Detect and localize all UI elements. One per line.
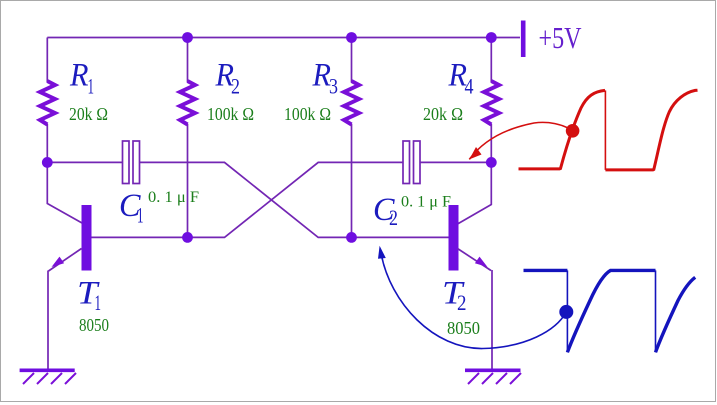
svg-text:100k Ω: 100k Ω xyxy=(284,104,331,124)
wire R2 branch xyxy=(187,38,189,83)
node top rail R4 xyxy=(486,32,497,43)
svg-text:2: 2 xyxy=(389,205,398,230)
svg-text:8050: 8050 xyxy=(79,315,109,335)
svg-text:R: R xyxy=(69,58,88,94)
svg-text:20k Ω: 20k Ω xyxy=(423,104,463,124)
node R1/C1 xyxy=(42,157,53,168)
node T2 base xyxy=(346,232,357,243)
svg-text:1: 1 xyxy=(95,290,102,315)
svg-text:3: 3 xyxy=(329,74,338,99)
svg-text:0. 1 μ F: 0. 1 μ F xyxy=(148,189,199,206)
svg-text:1: 1 xyxy=(88,74,95,99)
wire top rail xyxy=(47,37,520,39)
node top rail R2 xyxy=(182,32,193,43)
svg-text:4: 4 xyxy=(465,74,474,99)
wire T2 emitter to ground xyxy=(491,270,493,369)
capacitor C2 xyxy=(373,141,451,230)
wire C2 to R4 node xyxy=(421,161,492,163)
blue probe arrow xyxy=(378,246,573,349)
wire R1 branch xyxy=(46,38,48,83)
red waveform xyxy=(519,90,698,170)
power +5V xyxy=(523,20,582,57)
wire R3 branch xyxy=(351,38,353,83)
resistor R1 xyxy=(40,58,108,125)
wire T1 base to C2 (cross diagonal up) xyxy=(92,162,404,237)
blue waveform xyxy=(524,270,696,352)
svg-text:8050: 8050 xyxy=(447,318,480,338)
ground 1 xyxy=(20,370,76,384)
wire T1 emitter to ground xyxy=(47,271,49,370)
node T1 base xyxy=(182,232,193,243)
wire R4 branch xyxy=(490,38,492,83)
svg-text:2: 2 xyxy=(231,74,240,99)
transistor T2 xyxy=(442,205,491,338)
wire C1 row left xyxy=(47,161,122,163)
svg-text:20k Ω: 20k Ω xyxy=(69,104,108,124)
resistor R3 xyxy=(284,58,359,125)
svg-text:1: 1 xyxy=(137,203,144,228)
node R4/C2 xyxy=(486,157,497,168)
capacitor C1 xyxy=(119,141,199,228)
resistor R2 xyxy=(180,58,254,125)
ground 2 xyxy=(465,370,521,384)
svg-text:100k Ω: 100k Ω xyxy=(207,104,254,124)
resistor R4 xyxy=(423,58,499,125)
svg-text:+5V: +5V xyxy=(539,20,582,55)
svg-text:2: 2 xyxy=(457,290,467,315)
wire C1 to T2 base (cross diagonal down) xyxy=(140,162,449,237)
svg-text:0. 1 μ F: 0. 1 μ F xyxy=(401,194,451,211)
node top rail R3 xyxy=(346,32,357,43)
transistor T1 xyxy=(49,205,110,335)
red probe arrow xyxy=(469,122,579,159)
